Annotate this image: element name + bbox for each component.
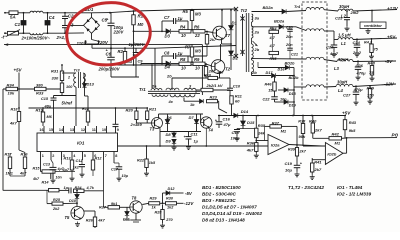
svg-text:10: 10: [181, 33, 186, 38]
svg-text:11: 11: [92, 128, 96, 132]
svg-text:C17: C17: [111, 168, 119, 172]
svg-text:C23: C23: [326, 45, 334, 50]
svg-text:2×100n/250V~: 2×100n/250V~: [21, 36, 51, 41]
svg-text:1M1: 1M1: [6, 172, 13, 176]
svg-text:D8: D8: [166, 132, 172, 137]
svg-text:1b: 1b: [190, 103, 195, 107]
svg-text:C26: C26: [356, 63, 364, 68]
svg-text:C25: C25: [335, 16, 343, 21]
svg-text:D17: D17: [266, 71, 274, 75]
svg-text:D3: D3: [165, 34, 171, 39]
svg-text:+5V: +5V: [14, 68, 23, 73]
svg-text:R34: R34: [7, 83, 15, 88]
svg-text:-12V: -12V: [184, 201, 194, 206]
svg-text:BD3 - FB6123C: BD3 - FB6123C: [202, 198, 236, 203]
svg-text:R16: R16: [21, 153, 29, 157]
svg-text:R33: R33: [36, 91, 44, 96]
svg-text:1k5: 1k5: [149, 161, 156, 165]
svg-text:M0: M0: [138, 22, 144, 27]
svg-text:PG: PG: [392, 133, 399, 138]
svg-text:2k7: 2k7: [314, 167, 322, 172]
svg-text:D12: D12: [168, 187, 176, 191]
svg-text:C12: C12: [76, 159, 84, 163]
svg-text:R29: R29: [150, 197, 158, 201]
svg-text:R18: R18: [82, 107, 90, 111]
svg-text:R26: R26: [86, 219, 94, 223]
svg-text:D9: D9: [166, 138, 172, 143]
svg-text:-12V: -12V: [384, 82, 395, 87]
svg-text:2: 2: [67, 76, 70, 80]
svg-text:1μ/250V: 1μ/250V: [129, 42, 146, 47]
svg-text:T2: T2: [225, 67, 231, 72]
svg-text:+5V: +5V: [342, 111, 351, 116]
svg-text:R41: R41: [314, 159, 322, 164]
svg-text:C27: C27: [343, 93, 351, 98]
svg-text:L3: L3: [334, 66, 340, 71]
svg-text:R21: R21: [149, 107, 157, 112]
svg-text:10: 10: [181, 65, 186, 70]
svg-text:R22: R22: [137, 159, 145, 163]
svg-text:IO1 - TL494: IO1 - TL494: [337, 185, 363, 190]
svg-text:220V: 220V: [97, 40, 109, 45]
svg-text:R8: R8: [180, 57, 186, 62]
svg-text:-5V: -5V: [385, 59, 393, 64]
svg-text:R25: R25: [53, 198, 61, 202]
svg-text:9: 9: [117, 128, 119, 132]
svg-text:T3: T3: [150, 127, 156, 132]
svg-text:20n: 20n: [285, 43, 293, 47]
svg-text:R23: R23: [210, 94, 218, 99]
svg-text:M1: M1: [281, 129, 287, 134]
svg-text:R2: R2: [118, 49, 124, 54]
svg-text:R31: R31: [51, 69, 59, 74]
svg-text:15: 15: [49, 128, 53, 132]
svg-text:1k2: 1k2: [73, 166, 80, 170]
svg-text:4,7k: 4,7k: [86, 186, 95, 190]
svg-text:+12V: +12V: [387, 6, 399, 11]
svg-text:200μ/200V: 200μ/200V: [98, 67, 121, 72]
svg-text:330: 330: [52, 76, 59, 81]
svg-text:2b: 2b: [166, 74, 172, 79]
svg-text:10k: 10k: [8, 91, 15, 96]
svg-text:R39: R39: [288, 148, 296, 152]
svg-text:BD2 - S30C40C: BD2 - S30C40C: [202, 192, 236, 197]
svg-text:10μ: 10μ: [122, 174, 129, 178]
svg-text:4k7: 4k7: [97, 219, 105, 223]
svg-text:R18: R18: [11, 107, 19, 111]
svg-text:2b: 2b: [254, 47, 260, 52]
svg-text:20n: 20n: [285, 35, 293, 39]
svg-text:L1: L1: [341, 41, 347, 46]
svg-text:470μ: 470μ: [356, 71, 367, 76]
svg-text:D3,D4,D14 až D19 - 1N4002: D3,D4,D14 až D19 - 1N4002: [202, 211, 262, 216]
svg-text:R9: R9: [194, 57, 200, 62]
svg-text:M6: M6: [47, 115, 53, 119]
svg-text:R4: R4: [180, 24, 186, 29]
svg-text:D2: D2: [233, 56, 239, 61]
svg-text:3a: 3a: [255, 16, 260, 21]
svg-text:9k1: 9k1: [111, 202, 117, 206]
svg-text:Tr4: Tr4: [294, 4, 301, 9]
svg-text:R46: R46: [265, 82, 273, 86]
svg-text:C15: C15: [41, 97, 49, 101]
svg-text:D16: D16: [278, 68, 286, 72]
svg-text:2k7: 2k7: [299, 150, 307, 154]
svg-text:4k7: 4k7: [246, 148, 254, 153]
svg-text:380: 380: [36, 83, 43, 88]
svg-text:C19: C19: [285, 161, 293, 166]
svg-text:R44: R44: [270, 27, 278, 31]
svg-text:D19: D19: [289, 104, 297, 108]
svg-text:BD1 - B250C1500: BD1 - B250C1500: [202, 185, 241, 190]
svg-text:D15: D15: [247, 120, 255, 125]
svg-text:4,7: 4,7: [269, 44, 276, 48]
svg-text:D11: D11: [123, 218, 130, 222]
svg-text:5A: 5A: [10, 15, 16, 20]
svg-text:IO1: IO1: [77, 141, 85, 146]
svg-text:IO2a: IO2a: [271, 143, 280, 148]
svg-text:220V: 220V: [113, 30, 125, 35]
svg-text:D6: D6: [167, 115, 173, 120]
svg-text:R17: R17: [5, 153, 13, 157]
svg-text:1μ: 1μ: [194, 140, 199, 144]
svg-text:75: 75: [369, 70, 374, 75]
svg-text:IO2b: IO2b: [327, 152, 336, 157]
svg-text:100n: 100n: [231, 136, 241, 141]
svg-text:R6: R6: [194, 24, 200, 29]
svg-text:R4,7: R4,7: [364, 41, 373, 45]
svg-text:22: 22: [194, 33, 200, 38]
svg-text:110V: 110V: [77, 41, 88, 46]
svg-text:C16: C16: [223, 116, 231, 121]
svg-text:M3: M3: [195, 12, 201, 17]
svg-text:10μ: 10μ: [285, 168, 292, 173]
svg-text:D13: D13: [87, 82, 95, 87]
svg-text:30μH: 30μH: [339, 4, 350, 9]
svg-text:10n: 10n: [56, 175, 63, 179]
svg-text:Tr3: Tr3: [74, 68, 81, 73]
svg-text:T7: T7: [225, 33, 231, 38]
svg-text:D18: D18: [289, 92, 297, 96]
svg-text:30μH: 30μH: [337, 80, 348, 85]
svg-text:C1: C1: [15, 22, 21, 27]
svg-text:4μ7: 4μ7: [62, 168, 70, 172]
svg-text:R15: R15: [33, 167, 41, 171]
svg-text:+5V: +5V: [387, 35, 396, 40]
svg-text:1: 1: [42, 154, 44, 158]
svg-text:D1,D2,D5 až D7 - 1N4007: D1,D2,D5 až D7 - 1N4007: [202, 205, 257, 210]
svg-text:2a: 2a: [151, 83, 157, 88]
svg-text:100: 100: [66, 85, 73, 89]
svg-text:12: 12: [81, 128, 85, 132]
svg-text:R36: R36: [247, 141, 255, 146]
svg-text:Tr2: Tr2: [241, 8, 248, 13]
svg-text:5Vref: 5Vref: [62, 101, 73, 106]
svg-text:Tr1: Tr1: [139, 87, 146, 92]
svg-text:R5: R5: [183, 9, 189, 14]
svg-text:ventilátor: ventilátor: [364, 23, 382, 28]
svg-text:C8: C8: [164, 51, 170, 56]
svg-text:D14: D14: [241, 109, 249, 114]
svg-text:2k7: 2k7: [314, 128, 322, 133]
svg-text:4k7: 4k7: [9, 121, 17, 126]
svg-text:D10: D10: [69, 199, 77, 203]
svg-text:10: 10: [195, 65, 200, 70]
svg-text:-5V: -5V: [185, 191, 193, 196]
svg-text:C9: C9: [138, 59, 144, 64]
svg-text:D4: D4: [165, 65, 171, 70]
svg-text:4k7: 4k7: [32, 177, 40, 181]
svg-text:R19: R19: [36, 107, 44, 112]
svg-text:BD2a: BD2a: [263, 5, 274, 10]
svg-text:D7: D7: [189, 115, 195, 120]
svg-text:2k7: 2k7: [216, 71, 224, 75]
svg-text:8: 8: [115, 154, 117, 158]
svg-text:C7: C7: [164, 15, 170, 20]
svg-text:R10: R10: [204, 73, 212, 77]
svg-text:98k: 98k: [299, 134, 306, 139]
svg-text:R38: R38: [298, 119, 306, 123]
svg-text:16: 16: [39, 128, 43, 132]
svg-text:150: 150: [367, 93, 374, 98]
svg-text:R45: R45: [270, 57, 278, 61]
svg-text:2: 2: [52, 154, 54, 158]
svg-text:10: 10: [102, 128, 106, 132]
svg-text:BD2b: BD2b: [285, 62, 296, 66]
svg-text:R12: R12: [95, 157, 103, 161]
svg-text:1μ: 1μ: [178, 51, 183, 56]
svg-text:47μ: 47μ: [223, 122, 231, 127]
svg-text:C13: C13: [43, 163, 51, 167]
svg-text:C18: C18: [232, 130, 240, 135]
svg-text:1k2: 1k2: [167, 206, 174, 210]
svg-text:C11: C11: [191, 132, 199, 137]
svg-text:R14: R14: [42, 181, 50, 185]
svg-text:R7: R7: [185, 45, 191, 50]
svg-text:1μ: 1μ: [64, 186, 69, 190]
svg-text:R28: R28: [155, 211, 163, 215]
svg-text:R37: R37: [272, 120, 280, 125]
svg-text:T5: T5: [65, 215, 71, 220]
svg-text:C24: C24: [353, 40, 361, 45]
svg-text:T8: T8: [132, 196, 138, 201]
svg-text:R13: R13: [64, 157, 72, 161]
svg-text:R24: R24: [75, 186, 83, 190]
svg-text:5: 5: [84, 154, 86, 158]
svg-text:M3: M3: [195, 49, 201, 54]
svg-text:R30: R30: [166, 197, 174, 201]
svg-text:4c: 4c: [168, 99, 174, 104]
svg-text:R43: R43: [349, 120, 357, 125]
svg-text:C10: C10: [233, 84, 241, 89]
svg-text:9k5: 9k5: [349, 128, 356, 133]
svg-text:C22: C22: [263, 98, 271, 102]
svg-text:T4: T4: [208, 128, 214, 133]
svg-text:D8 až D13 - 1N4148: D8 až D13 - 1N4148: [202, 218, 245, 223]
svg-text:C4: C4: [49, 15, 55, 20]
svg-text:-t°: -t°: [1, 35, 6, 40]
svg-text:2m2: 2m2: [350, 10, 360, 15]
svg-text:1μ: 1μ: [178, 16, 183, 21]
svg-text:D1: D1: [232, 21, 238, 26]
svg-text:BD2a: BD2a: [274, 19, 285, 24]
svg-text:C21: C21: [291, 53, 298, 57]
svg-text:270: 270: [165, 218, 173, 222]
svg-text:4k7: 4k7: [19, 172, 27, 176]
svg-text:T1,T2 - 2SC4242: T1,T2 - 2SC4242: [288, 185, 324, 190]
svg-text:13: 13: [70, 128, 74, 132]
svg-text:470μ: 470μ: [353, 87, 364, 92]
svg-text:1,5 μH: 1,5 μH: [338, 32, 352, 37]
svg-text:2k2: 2k2: [52, 207, 60, 211]
svg-text:60: 60: [235, 99, 240, 104]
svg-text:2k2/1 kV: 2k2/1 kV: [206, 83, 223, 88]
svg-text:48a: 48a: [44, 105, 51, 109]
svg-text:R42: R42: [332, 132, 340, 137]
svg-text:4,7: 4,7: [269, 36, 276, 40]
svg-text:2a: 2a: [254, 30, 260, 35]
svg-text:30μH: 30μH: [338, 57, 349, 62]
svg-text:IO2 - 1/2 LM339: IO2 - 1/2 LM339: [337, 192, 372, 197]
svg-text:7: 7: [105, 154, 107, 158]
svg-text:M1: M1: [335, 141, 341, 146]
